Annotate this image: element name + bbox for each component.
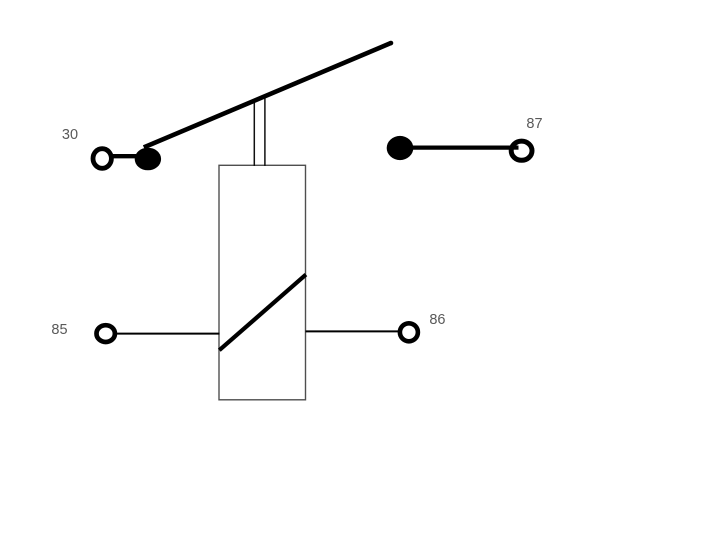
pivot contact (filled) at terminal 30 <box>135 148 161 171</box>
armature lever (movable contact arm) <box>144 43 391 147</box>
armature link left line <box>253 100 255 167</box>
wire terminal 85 to coil <box>117 333 220 335</box>
wire coil to terminal 86 <box>306 330 399 332</box>
svg-text:87: 87 <box>526 116 542 132</box>
coil diagonal stroke <box>219 275 306 351</box>
fixed contact (filled) toward terminal 87 <box>387 136 414 160</box>
wire contact to terminal 87 <box>412 146 519 150</box>
terminal 87 open circle <box>511 141 532 160</box>
wire nub inside terminal 87 <box>511 146 519 150</box>
terminal 86 open circle <box>400 323 418 341</box>
relay coil box K1 <box>219 165 306 399</box>
svg-text:85: 85 <box>51 322 67 338</box>
wire terminal 30 to pivot <box>113 154 137 158</box>
armature lever tip <box>389 41 394 46</box>
svg-text:86: 86 <box>429 312 445 328</box>
terminal 85 open circle <box>97 325 115 342</box>
terminal 30 open circle <box>93 149 111 169</box>
svg-text:30: 30 <box>62 127 78 143</box>
armature link right line <box>264 95 266 166</box>
